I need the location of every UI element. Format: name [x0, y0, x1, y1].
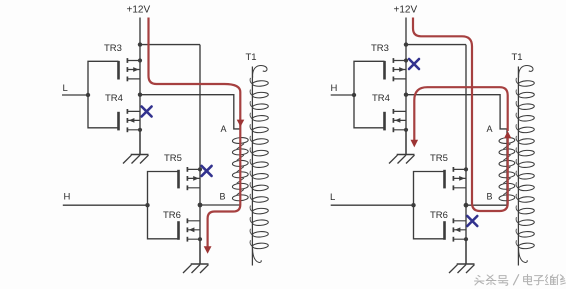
- wire: gate box TR3/TR4 (right): [354, 61, 385, 128]
- transistor TR5 (right): [445, 167, 469, 190]
- transformer T1 (left) core: [251, 67, 253, 266]
- X mark (TR5, left off): [202, 166, 212, 176]
- red arrowhead to ground via TR6 (left): [204, 246, 212, 254]
- wire: input L (right): [331, 204, 414, 206]
- node: TR3 source / TR4 drain junction (left): [138, 93, 142, 97]
- ground (TR6 source, right): [449, 240, 475, 274]
- wire: input H (left): [63, 204, 148, 206]
- X mark (TR4, left off): [142, 107, 152, 117]
- svg-text:L: L: [63, 83, 68, 94]
- wire: +12V rail to TR5 branch (right): [406, 44, 466, 46]
- svg-text:TR4: TR4: [372, 93, 390, 104]
- svg-text:TR3: TR3: [104, 43, 122, 54]
- svg-text:L: L: [330, 192, 335, 203]
- wire: TR5/TR6 main vertical (left): [199, 45, 201, 264]
- ground (TR4 source, left): [123, 130, 149, 164]
- svg-text:TR5: TR5: [164, 153, 182, 164]
- svg-text:+12V: +12V: [394, 5, 418, 16]
- transistor TR3 (left): [119, 58, 143, 81]
- svg-text:TR3: TR3: [371, 43, 389, 54]
- transformer T1 (right) core: [517, 67, 519, 266]
- svg-text:B: B: [487, 192, 493, 202]
- svg-text:H: H: [64, 192, 71, 203]
- wire: gate box TR5/TR6 (left): [148, 172, 179, 239]
- ground (TR6 source, left): [183, 239, 209, 273]
- svg-text:TR5: TR5: [430, 153, 448, 164]
- svg-text:+12V: +12V: [127, 5, 151, 16]
- wire: +12V to TR3 drain / TR4 source to ground (left main vertical): [139, 18, 141, 155]
- wire: TR5 source / TR6 drain to node B (right): [466, 204, 507, 206]
- wire: TR5/TR6 main vertical (right): [465, 45, 467, 264]
- transistor TR6 (right): [445, 218, 469, 241]
- ground (TR4 source, right): [389, 130, 415, 164]
- watermark "头条号 / 电子维修" (drawn strokes): [475, 274, 566, 285]
- junction: +12V rail (right): [404, 42, 408, 46]
- red current path: +12V through TR3 to node A through primary to B exit via TR6 (left): [149, 18, 241, 248]
- svg-text:B: B: [220, 192, 226, 202]
- transistor TR4 (left): [119, 109, 143, 132]
- node: TR3 source / TR4 drain junction (right): [404, 93, 408, 97]
- junction: L input to gates (left): [86, 93, 90, 97]
- transistor TR5 (left): [179, 167, 203, 190]
- red current path: +12V via TR5 to node B up through primary to A (right): [413, 18, 508, 212]
- wire: input L (left): [62, 94, 88, 96]
- svg-text:A: A: [221, 124, 227, 134]
- wire: TR5 source / TR6 drain to node B (left): [200, 204, 240, 206]
- red arrowhead to ground via TR4 (right): [411, 140, 419, 148]
- transistor TR6 (left): [179, 218, 203, 241]
- red arrowhead at node A pointing up (right): [504, 131, 511, 138]
- transistor TR4 (right): [385, 109, 409, 132]
- junction: H input to gates (right): [352, 93, 356, 97]
- junction: L input to gates (right): [411, 203, 415, 207]
- junction: node B wire (left): [198, 203, 203, 208]
- junction: +12V rail (left): [138, 42, 142, 46]
- transformer T1 (left) primary axis wire A to B: [239, 129, 241, 205]
- X mark (TR6, right off): [467, 216, 477, 226]
- transformer T1 (right) secondary winding: [516, 65, 534, 262]
- svg-text:T1: T1: [246, 52, 257, 63]
- junction: node B wire (right): [464, 203, 469, 208]
- red current path: node A via TR4 to ground (right): [414, 87, 507, 140]
- wire: +12V rail to TR5 branch (left): [140, 44, 200, 46]
- transformer T1 (right) primary axis wire A to B: [506, 129, 508, 205]
- wire: +12V to TR3 drain / TR4 source to ground (right main vertical): [405, 18, 407, 155]
- svg-text:TR4: TR4: [105, 93, 123, 104]
- wire: gate box TR3/TR4 (left): [88, 61, 119, 128]
- transistor TR3 (right): [385, 58, 409, 81]
- svg-text:TR6: TR6: [163, 210, 181, 221]
- X mark (TR3, right off): [409, 59, 419, 69]
- svg-text:T1: T1: [512, 52, 523, 63]
- wire: half-bridge output to node A (left): [140, 95, 240, 129]
- svg-text:H: H: [331, 83, 338, 94]
- transformer T1 (left) primary winding: [232, 137, 248, 201]
- transformer T1 (left) secondary winding: [250, 65, 268, 262]
- junction: H input to gates (left): [145, 203, 149, 207]
- transformer T1 (right) primary winding: [499, 137, 515, 201]
- svg-text:A: A: [487, 124, 493, 134]
- svg-text:TR6: TR6: [430, 210, 448, 221]
- red arrowhead at node A (left): [237, 120, 245, 127]
- wire: gate box TR5/TR6 (right): [414, 172, 445, 239]
- wire: half-bridge output to node A (right): [406, 95, 507, 129]
- wire: input H (right): [331, 94, 354, 96]
